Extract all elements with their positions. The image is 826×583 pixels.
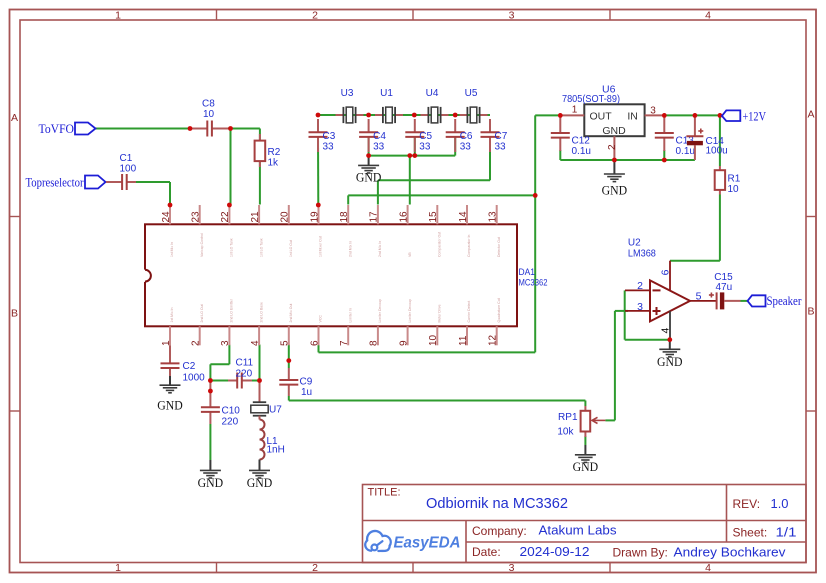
svg-text:2nd Mix In: 2nd Mix In: [378, 241, 382, 257]
svg-text:Andrey Bochkarev: Andrey Bochkarev: [674, 545, 787, 560]
wire op-amp pin2 feedback to pin4: [625, 290, 670, 339]
svg-text:OUT: OUT: [590, 110, 613, 122]
svg-text:10: 10: [203, 109, 215, 120]
svg-text:R2: R2: [268, 147, 281, 158]
wire 7805 IN rail to +12V: [664, 114, 721, 116]
svg-text:10: 10: [428, 334, 439, 346]
junction 7805 OUT / C12: [558, 113, 563, 118]
wire pin18 to 5V rail: [348, 195, 535, 204]
pin 4 DA1: [250, 302, 263, 346]
svg-text:A: A: [11, 112, 18, 124]
svg-text:100u: 100u: [706, 146, 728, 157]
svg-text:220: 220: [222, 417, 239, 428]
net flag Topreselector: [26, 175, 106, 189]
pin 21 DA1: [250, 205, 263, 257]
pin 22 DA1: [220, 205, 233, 257]
wire C9 to RP1 top: [289, 396, 586, 406]
wire pin4 to node B: [259, 345, 261, 381]
wire bus to pin16: [409, 156, 411, 205]
svg-text:24: 24: [161, 211, 172, 223]
svg-text:1: 1: [115, 562, 121, 574]
wire 5V rail to 7805 OUT: [535, 114, 560, 116]
capacitor C3: [309, 119, 336, 153]
pin 12 DA1: [488, 298, 501, 346]
wire R2 bottom to pin21: [259, 161, 261, 205]
svg-text:Odbiornik na MC3362: Odbiornik na MC3362: [426, 496, 568, 512]
svg-text:7805(SOT-89): 7805(SOT-89): [562, 93, 620, 105]
svg-text:MC3362: MC3362: [519, 278, 548, 289]
svg-text:3: 3: [650, 105, 656, 116]
wire C15 to Speaker flag: [741, 300, 748, 302]
svg-text:4: 4: [659, 328, 671, 334]
svg-text:1: 1: [572, 104, 578, 115]
pin 10 DA1: [428, 304, 441, 346]
svg-text:14: 14: [458, 211, 469, 223]
svg-text:U2: U2: [628, 238, 641, 249]
wire crystal filter chain: [318, 114, 490, 116]
pin 20 DA1: [280, 205, 293, 257]
svg-text:RP1: RP1: [558, 412, 578, 423]
svg-text:1/1: 1/1: [776, 525, 797, 540]
svg-text:7: 7: [339, 340, 350, 346]
svg-text:Limiter Decoup: Limiter Decoup: [378, 299, 382, 323]
svg-text:C9: C9: [300, 377, 313, 388]
svg-text:4: 4: [705, 562, 711, 574]
svg-text:C8: C8: [202, 99, 215, 110]
junction chain left / C3: [316, 113, 321, 118]
label DA1 MC3362: [519, 267, 548, 289]
svg-text:10k: 10k: [557, 427, 574, 438]
svg-text:1.0: 1.0: [771, 496, 789, 511]
pin 7 DA1: [339, 308, 352, 346]
wire RP1 bottom to ground: [584, 436, 586, 445]
svg-text:4: 4: [705, 10, 711, 22]
junction ground rail / 7805 pin2: [612, 158, 617, 163]
title block: [363, 485, 807, 563]
svg-text:18: 18: [339, 211, 350, 223]
svg-text:U7: U7: [269, 405, 282, 416]
crystal U1: [375, 88, 403, 123]
EasyEDA logo: [365, 531, 460, 552]
pin 9 DA1: [398, 299, 411, 346]
svg-text:33: 33: [323, 142, 335, 153]
svg-text:1st Mix In: 1st Mix In: [170, 242, 174, 257]
inductor L1: [260, 420, 285, 460]
junction pin5 wire / C9: [286, 358, 291, 363]
svg-text:33: 33: [495, 142, 507, 153]
capacitor C8: [190, 99, 228, 137]
IC DA1 MC3362 body: [145, 224, 517, 326]
wire Topreselector to C1 to pin24: [127, 182, 170, 205]
wire C11 right to pin4 node: [248, 380, 260, 382]
svg-text:VB: VB: [408, 252, 412, 257]
svg-text:13: 13: [488, 211, 499, 223]
wire C4 bottom to gnd bus: [368, 137, 370, 156]
svg-text:33: 33: [460, 142, 472, 153]
wire C3 bottom to pin19: [317, 137, 319, 205]
junction IN rail / C13: [662, 113, 667, 118]
svg-text:LM368: LM368: [628, 249, 656, 260]
junction gnd bus / pin16 drop: [407, 153, 412, 158]
svg-text:3: 3: [220, 340, 231, 346]
svg-text:4: 4: [250, 340, 261, 346]
svg-text:C6: C6: [460, 131, 473, 142]
svg-text:+12V: +12V: [743, 109, 767, 123]
junction op-amp pin4 / feedback: [667, 337, 672, 342]
ground GND symbol regulator: [602, 160, 628, 198]
svg-text:1nH: 1nH: [267, 445, 285, 456]
svg-text:ToVFO: ToVFO: [39, 122, 75, 136]
svg-text:2: 2: [312, 562, 318, 574]
svg-text:2: 2: [607, 144, 618, 150]
svg-text:Limiter Decoup: Limiter Decoup: [408, 299, 412, 323]
junction C8 / pin22 node: [228, 126, 233, 131]
svg-text:GND: GND: [602, 125, 626, 137]
svg-text:REV:: REV:: [733, 497, 761, 511]
capacitor C5: [405, 119, 432, 153]
svg-text:Limiter In: Limiter In: [348, 308, 352, 322]
resistor R2: [255, 134, 281, 169]
junction IN rail / C14: [693, 113, 698, 118]
pin 11 DA1: [458, 301, 471, 346]
net flag +12V: [718, 109, 767, 123]
pin 18 DA1: [339, 205, 352, 257]
ground bus GND symbol: [356, 156, 382, 185]
wire gnd bus: [369, 155, 456, 157]
capacitor C2: [161, 345, 206, 383]
svg-text:2nd LO Base: 2nd LO Base: [259, 302, 263, 322]
svg-text:6: 6: [659, 269, 671, 275]
svg-text:C11: C11: [236, 358, 254, 369]
junction ToVFO wire / C8: [188, 126, 193, 131]
junction ground rail / C13: [662, 158, 667, 163]
svg-text:220: 220: [236, 369, 253, 380]
pin 5 DA1: [280, 304, 293, 346]
svg-text:GND: GND: [602, 184, 628, 198]
wire pin5 to C9: [288, 345, 290, 369]
wire ToVFO to C8: [96, 128, 208, 130]
svg-text:2: 2: [637, 280, 643, 292]
crystal U7: [251, 381, 282, 420]
svg-text:GND: GND: [157, 398, 183, 412]
svg-text:33: 33: [373, 142, 385, 153]
svg-text:B: B: [11, 308, 18, 320]
ground GND symbol L1: [247, 460, 273, 491]
svg-text:6: 6: [309, 340, 320, 346]
pin 6 DA1: [309, 315, 322, 346]
svg-text:12: 12: [488, 334, 499, 346]
svg-text:9: 9: [398, 340, 409, 346]
svg-text:Comparator Out: Comparator Out: [438, 232, 442, 257]
junction U1-U4 / C5: [412, 113, 417, 118]
svg-text:U3: U3: [341, 88, 354, 99]
junction gnd bus / C5: [412, 153, 417, 158]
svg-text:1000: 1000: [183, 373, 206, 384]
svg-text:1st Mix In: 1st Mix In: [170, 307, 174, 322]
svg-text:2nd LO Out: 2nd LO Out: [200, 304, 204, 322]
capacitor C15 electrolytic: [709, 272, 741, 309]
pin 3 DA1: [220, 298, 233, 346]
wire +12V to R1: [719, 115, 721, 166]
svg-text:23: 23: [191, 211, 202, 223]
capacitor C9: [279, 368, 312, 398]
wire R1 to op-amp pin6: [670, 195, 720, 261]
svg-text:U4: U4: [426, 88, 439, 99]
svg-text:GND: GND: [356, 170, 382, 184]
svg-text:Topreselector: Topreselector: [26, 175, 85, 189]
svg-text:U5: U5: [465, 88, 478, 99]
svg-text:8: 8: [369, 340, 380, 346]
pin 16 DA1: [398, 205, 411, 257]
svg-text:C10: C10: [222, 406, 241, 417]
junction gnd bus / C4 / GND: [366, 153, 371, 158]
wire C8 to R2 top node: [212, 129, 260, 141]
pin 23 DA1: [191, 205, 204, 257]
svg-text:2nd Mix In: 2nd Mix In: [348, 241, 352, 257]
svg-text:Quadrature Coil: Quadrature Coil: [497, 298, 501, 323]
svg-text:47u: 47u: [716, 282, 733, 293]
pin 19 DA1: [309, 205, 322, 257]
wire C10 bottom to ground: [209, 424, 211, 460]
svg-text:3: 3: [509, 10, 515, 22]
ground GND symbol op-amp: [657, 340, 683, 369]
svg-text:19: 19: [309, 211, 320, 223]
capacitor C6: [446, 119, 473, 153]
svg-text:DA1: DA1: [519, 267, 536, 278]
ground GND symbol RP1: [573, 445, 599, 474]
capacitor C14 electrolytic: [686, 115, 727, 160]
pin 2 DA1: [191, 304, 204, 346]
svg-text:C4: C4: [373, 131, 386, 142]
svg-text:10: 10: [728, 184, 740, 195]
svg-text:3: 3: [509, 562, 515, 574]
capacitor C11: [228, 358, 254, 389]
voltage regulator U6 7805: [560, 84, 664, 161]
svg-text:Varicap Control: Varicap Control: [200, 233, 204, 257]
pin 24 DA1: [161, 205, 174, 257]
wire regulator ground rail: [560, 150, 695, 160]
svg-text:GND: GND: [657, 355, 683, 369]
svg-text:U1: U1: [380, 88, 393, 99]
svg-text:3: 3: [637, 301, 643, 313]
svg-text:A: A: [807, 109, 814, 121]
svg-text:1u: 1u: [301, 387, 312, 398]
wire op-amp pin3 to RP1 wiper: [605, 311, 628, 421]
svg-text:16: 16: [398, 211, 409, 223]
svg-text:VCC: VCC: [319, 315, 323, 323]
wire C11 node A segment: [210, 380, 231, 382]
svg-text:C12: C12: [572, 136, 591, 147]
wire node to pin22: [230, 129, 232, 205]
svg-text:2: 2: [191, 340, 202, 346]
junction pin22 top: [227, 203, 232, 208]
wire 5V rail vertical: [319, 115, 536, 352]
svg-text:1st LO Out: 1st LO Out: [289, 240, 293, 257]
svg-text:11: 11: [458, 335, 469, 346]
svg-text:20: 20: [280, 211, 291, 223]
svg-text:GND: GND: [247, 476, 273, 490]
capacitor C4: [359, 119, 386, 153]
svg-text:Sheet:: Sheet:: [733, 526, 768, 540]
svg-text:Drawn By:: Drawn By:: [613, 546, 668, 560]
svg-text:2: 2: [312, 10, 318, 22]
svg-text:22: 22: [220, 211, 231, 223]
junction node A / C10: [208, 389, 213, 394]
svg-text:C3: C3: [323, 131, 336, 142]
capacitor C13: [655, 115, 695, 157]
net flag Speaker: [748, 294, 803, 308]
potentiometer RP1: [557, 406, 605, 438]
svg-text:0.1u: 0.1u: [572, 146, 591, 157]
crystal U5: [460, 88, 488, 123]
svg-text:0.1u: 0.1u: [676, 146, 695, 157]
crystal U3: [336, 88, 364, 123]
svg-text:GND: GND: [198, 476, 224, 490]
svg-text:GND: GND: [573, 460, 599, 474]
svg-text:B: B: [807, 306, 814, 318]
svg-text:IN: IN: [627, 110, 638, 122]
ground GND symbol C10: [198, 460, 224, 490]
svg-text:2nd Mix Out: 2nd Mix Out: [289, 304, 293, 323]
svg-text:Speaker: Speaker: [767, 294, 803, 308]
svg-text:100: 100: [120, 164, 137, 175]
svg-text:1st LO Tank: 1st LO Tank: [230, 238, 234, 257]
svg-text:Company:: Company:: [472, 524, 527, 538]
junction pin19 top: [316, 203, 321, 208]
svg-text:R1: R1: [728, 174, 741, 185]
svg-text:C2: C2: [183, 361, 196, 372]
ground GND symbol C2: [157, 376, 183, 412]
wire C5 bottom to bus: [414, 137, 416, 156]
svg-text:17: 17: [369, 211, 380, 223]
svg-text:C1: C1: [120, 153, 133, 164]
junction U4-U5 / C6: [453, 113, 458, 118]
svg-text:1: 1: [115, 10, 121, 22]
svg-text:TITLE:: TITLE:: [368, 487, 401, 499]
pin 15 DA1: [428, 205, 441, 257]
op-amp U2 LM368: [625, 238, 717, 340]
wire C6 bottom to bus: [454, 137, 456, 156]
wire pin3 bottom to C11 node: [210, 345, 229, 381]
pin 17 DA1: [369, 205, 382, 257]
svg-text:Carrier Detect: Carrier Detect: [467, 301, 471, 323]
svg-text:Meter Drive: Meter Drive: [438, 304, 442, 322]
svg-text:C5: C5: [419, 131, 432, 142]
junction node B / C11 right / U7: [257, 378, 262, 383]
capacitor C10: [201, 381, 240, 428]
svg-text:2nd LO Emitter: 2nd LO Emitter: [230, 298, 234, 322]
svg-text:Atakum Labs: Atakum Labs: [539, 523, 618, 538]
svg-text:5: 5: [696, 291, 702, 303]
pin 13 DA1: [488, 205, 501, 257]
svg-text:1st Mixer Out: 1st Mixer Out: [319, 236, 323, 257]
svg-text:C7: C7: [495, 131, 508, 142]
wire C7 bottom to pin17: [378, 137, 490, 205]
capacitor C12: [551, 115, 591, 157]
junction U3-U1 / C4: [366, 113, 371, 118]
junction node A / C11 left: [208, 378, 213, 383]
svg-text:2024-09-12: 2024-09-12: [520, 544, 590, 559]
pin 14 DA1: [458, 205, 471, 257]
capacitor C1: [106, 153, 137, 190]
pin 8 DA1: [369, 299, 382, 346]
junction 5V rail / pin18 branch: [533, 193, 538, 198]
svg-text:5: 5: [280, 340, 291, 346]
pin 1 DA1: [161, 307, 174, 346]
capacitor C7: [481, 119, 508, 153]
resistor R1: [715, 166, 741, 195]
svg-text:1: 1: [161, 340, 172, 346]
svg-text:EasyEDA: EasyEDA: [394, 535, 461, 552]
svg-text:33: 33: [419, 142, 431, 153]
svg-text:21: 21: [250, 211, 261, 223]
junction pin24 top: [168, 203, 173, 208]
svg-text:1st LO Tank: 1st LO Tank: [259, 238, 263, 257]
svg-text:1k: 1k: [268, 158, 280, 169]
svg-text:Detector Out: Detector Out: [497, 237, 501, 257]
svg-text:Comparator In: Comparator In: [467, 235, 471, 257]
svg-text:15: 15: [428, 211, 439, 223]
svg-text:Date:: Date:: [472, 545, 501, 559]
crystal U4: [421, 88, 449, 123]
net flag ToVFO: [39, 122, 96, 136]
